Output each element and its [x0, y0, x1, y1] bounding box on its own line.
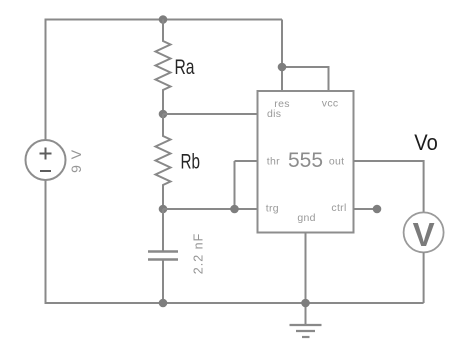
- svg-text:trg: trg: [266, 203, 279, 215]
- capacitor C1 top lead: [162, 209, 164, 251]
- voltage source V1 circle: [26, 140, 66, 180]
- resistor Ra: [156, 20, 171, 115]
- wire: bottom rail: [45, 302, 424, 304]
- wire: thr pin: [235, 160, 258, 162]
- resistor Rb: [156, 114, 171, 209]
- wire: res pin drop from top rail: [281, 20, 283, 92]
- wire: voltmeter bottom to bottom rail: [423, 252, 425, 303]
- node: junction Rb/C/trg: [159, 205, 168, 214]
- ground symbol bar 2: [296, 330, 315, 332]
- ground symbol bar 3: [302, 336, 310, 338]
- voltage source minus sign: [40, 170, 51, 172]
- wire: gnd pin drop: [305, 233, 307, 325]
- svg-text:dis: dis: [267, 108, 281, 120]
- node: junction Ra/Rb/dis: [159, 110, 168, 119]
- svg-text:555: 555: [288, 149, 323, 172]
- voltage source plus sign: [40, 148, 52, 160]
- wire: vcc branch: [282, 67, 329, 91]
- wire: dis pin: [163, 113, 258, 115]
- svg-text:Ra: Ra: [175, 55, 195, 79]
- node: junction gnd / bottom rail: [301, 299, 310, 308]
- svg-text:ctrl: ctrl: [331, 202, 346, 214]
- svg-text:out: out: [329, 156, 345, 168]
- capacitor C1 bottom plate: [148, 258, 178, 260]
- svg-text:V: V: [413, 216, 435, 253]
- wire: top rail from left rail to res drop: [46, 19, 283, 21]
- ground symbol bar 1: [290, 324, 322, 326]
- svg-text:Rb: Rb: [181, 150, 201, 174]
- wire: ctrl pin stub: [354, 208, 378, 210]
- wire: left rail lower (source bottom to bottom rail): [45, 181, 47, 304]
- node: junction C1 / bottom rail: [159, 299, 168, 308]
- capacitor C1 top plate: [148, 250, 178, 252]
- svg-text:gnd: gnd: [297, 212, 315, 224]
- voltmeter V circle: [404, 212, 444, 252]
- node: junction res/vcc: [278, 63, 287, 72]
- node: junction thr/trg: [230, 205, 239, 214]
- wire: left rail upper (source top to top rail): [45, 19, 47, 141]
- wire: out pin to voltmeter: [354, 161, 424, 212]
- svg-text:2.2 nF: 2.2 nF: [192, 233, 206, 274]
- wire: trg pin: [163, 208, 258, 210]
- node: junction top rail / Ra: [159, 15, 168, 24]
- node: ctrl endpoint dot: [373, 205, 382, 214]
- capacitor C1 bottom lead: [162, 260, 164, 303]
- wire: thr branch vertical: [234, 161, 236, 209]
- svg-text:vcc: vcc: [322, 98, 339, 110]
- svg-text:thr: thr: [267, 156, 280, 168]
- op-amp / IC U1: 555 timer body: [258, 91, 354, 233]
- svg-text:9 V: 9 V: [68, 149, 84, 173]
- svg-text:Vo: Vo: [414, 130, 438, 155]
